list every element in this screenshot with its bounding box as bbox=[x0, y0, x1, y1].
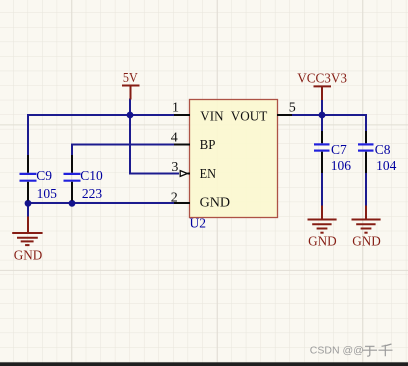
svg-text:EN: EN bbox=[200, 167, 216, 182]
svg-text:GND: GND bbox=[14, 247, 43, 262]
watermark CSDN bbox=[310, 344, 393, 356]
svg-text:C8: C8 bbox=[375, 142, 391, 157]
pin 2 of U2 bbox=[171, 190, 190, 205]
svg-text:1: 1 bbox=[172, 101, 179, 116]
wire C9 vertical drop from 5V net bbox=[27, 114, 29, 156]
bottom border bar bbox=[0, 362, 408, 366]
svg-text:C9: C9 bbox=[36, 168, 52, 183]
svg-text:3: 3 bbox=[171, 160, 178, 175]
pin 3 of U2 (EN input arrow) bbox=[171, 160, 190, 177]
wire C8 upper drop bbox=[365, 114, 367, 132]
svg-text:106: 106 bbox=[331, 158, 352, 173]
wire C9 to ground bbox=[27, 203, 29, 217]
IC U2 pin name GND bbox=[200, 196, 231, 211]
wire GND net horizontal (pin 2 to C9/C10) bbox=[27, 202, 176, 204]
svg-text:C7: C7 bbox=[331, 142, 347, 157]
wire C7 lower to ground bbox=[321, 172, 323, 206]
power port VCC3V3 bbox=[297, 71, 347, 100]
IC U2 pin name EN bbox=[200, 167, 216, 182]
svg-text:5: 5 bbox=[289, 101, 296, 116]
svg-text:223: 223 bbox=[82, 186, 103, 201]
svg-text:C10: C10 bbox=[80, 168, 103, 183]
wire C10 vertical drop from BP net bbox=[71, 144, 73, 156]
svg-text:GND: GND bbox=[308, 233, 337, 248]
pin 1 of U2 bbox=[172, 101, 190, 116]
svg-text:U2: U2 bbox=[190, 216, 207, 231]
IC U2 pin name VOUT bbox=[231, 110, 268, 125]
IC U2 designator bbox=[190, 216, 207, 231]
ground symbol below C9 bbox=[12, 217, 42, 263]
ground symbol below C7 bbox=[308, 206, 337, 249]
wire VOUT net (pin 5 to C7/C8) bbox=[291, 114, 366, 116]
junction node on VOUT net bbox=[319, 112, 326, 119]
wire VCC3V3 stem blue bbox=[321, 99, 323, 114]
wire C8 lower to ground bbox=[365, 172, 367, 206]
junction node C10 on GND net bbox=[69, 200, 76, 207]
pin 4 of U2 bbox=[171, 131, 190, 146]
capacitor C7 bbox=[314, 131, 351, 173]
junction node on 5V net bbox=[127, 112, 134, 119]
wire net 5V horizontal (pin 1 to C9) bbox=[27, 114, 176, 116]
svg-text:5V: 5V bbox=[123, 70, 138, 85]
wire EN horizontal bbox=[129, 173, 179, 175]
capacitor C10 bbox=[64, 155, 104, 201]
wire 5V stem to EN vertical bbox=[129, 99, 131, 174]
svg-text:2: 2 bbox=[171, 190, 178, 205]
svg-text:104: 104 bbox=[376, 158, 397, 173]
svg-text:GND: GND bbox=[200, 196, 231, 211]
svg-text:GND: GND bbox=[352, 233, 381, 248]
wire C7 upper drop bbox=[321, 115, 323, 132]
svg-text:VCC3V3: VCC3V3 bbox=[297, 71, 347, 86]
IC U2 pin name VIN bbox=[200, 110, 223, 125]
svg-text:4: 4 bbox=[171, 131, 178, 146]
svg-text:VIN: VIN bbox=[200, 110, 223, 125]
capacitor C9 bbox=[20, 155, 58, 201]
capacitor C8 bbox=[358, 131, 397, 173]
wire BP horizontal (pin 4 to C10) bbox=[71, 144, 176, 146]
IC U2 pin name BP bbox=[200, 138, 216, 153]
junction node C9 on GND net bbox=[25, 200, 32, 207]
pin 5 of U2 bbox=[277, 101, 296, 116]
svg-text:105: 105 bbox=[37, 186, 58, 201]
svg-text:BP: BP bbox=[200, 138, 216, 153]
power port 5V bbox=[122, 70, 140, 100]
IC U2 body bbox=[190, 100, 278, 218]
ground symbol below C8 bbox=[352, 206, 381, 249]
svg-text:CSDN @@: CSDN @@ bbox=[310, 344, 364, 356]
svg-text:VOUT: VOUT bbox=[231, 110, 268, 125]
